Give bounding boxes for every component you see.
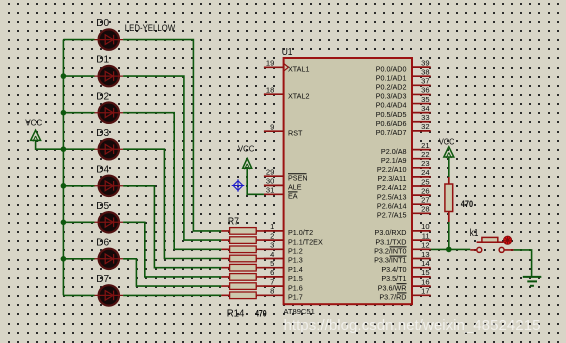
pin 8 stub (left) — [264, 294, 284, 296]
svg-text:29: 29 — [266, 168, 274, 177]
svg-text:P3.3/INT1: P3.3/INT1 — [374, 256, 406, 265]
svg-text:VCC: VCC — [238, 144, 255, 154]
svg-text:P2.3/A11: P2.3/A11 — [377, 174, 406, 183]
svg-text:D1: D1 — [96, 54, 109, 66]
svg-text:RST: RST — [288, 128, 303, 137]
svg-text:PSEN: PSEN — [288, 173, 308, 182]
svg-text:12: 12 — [421, 241, 429, 250]
wire button to ground — [514, 250, 532, 277]
wire D2 cathode to R7 element 3 — [123, 113, 221, 250]
svg-text:P0.6/AD6: P0.6/AD6 — [376, 119, 407, 128]
LED D3 — [95, 139, 124, 159]
junction node at P3.2 / resistor / button — [446, 247, 452, 253]
overline for P3.7/RD — [397, 292, 407, 294]
overline for P3.3/INT1 — [390, 255, 407, 257]
svg-text:P1.3: P1.3 — [288, 256, 303, 265]
svg-text:P0.5/AD5: P0.5/AD5 — [376, 110, 407, 119]
pin 35 stub (right) — [412, 103, 431, 105]
pin 26 stub (right) — [412, 194, 431, 196]
svg-text:VCC: VCC — [439, 136, 455, 146]
overline for P3.2/INT0 — [390, 246, 407, 248]
svg-text:D5: D5 — [96, 200, 109, 212]
svg-text:VCC: VCC — [25, 118, 42, 128]
wire resistor bottom to junction — [448, 222, 450, 249]
svg-text:https://blog.csdn.net/weixin_4: https://blog.csdn.net/weixin_48524215 — [284, 317, 541, 334]
svg-text:D3: D3 — [96, 127, 109, 139]
svg-text:18: 18 — [266, 86, 274, 95]
pin 24 stub (right) — [412, 176, 431, 178]
junction node on bus at D5 — [61, 220, 67, 226]
svg-text:3: 3 — [270, 241, 274, 250]
pin 2 stub (left) — [264, 239, 284, 241]
pin 32 stub (right) — [412, 130, 431, 132]
svg-text:XTAL1: XTAL1 — [288, 65, 309, 74]
svg-text:39: 39 — [421, 58, 429, 67]
pin 11 stub (right) — [412, 239, 431, 241]
wire LED anode bus (vertical) — [62, 40, 64, 296]
svg-text:P3.6/WR: P3.6/WR — [378, 283, 407, 292]
wire D0 cathode to R7 element 1 — [123, 40, 221, 231]
svg-text:27: 27 — [421, 196, 429, 205]
svg-text:P2.2/A10: P2.2/A10 — [377, 165, 407, 174]
button k1 red actuator — [503, 236, 511, 244]
svg-text:P0.7/AD7: P0.7/AD7 — [376, 128, 407, 137]
svg-text:P1.0/T2: P1.0/T2 — [288, 228, 313, 237]
power symbol VCC (mid, to EA pin) — [243, 159, 252, 170]
svg-text:XTAL2: XTAL2 — [288, 91, 309, 100]
pin 7 stub (left) — [264, 285, 284, 287]
svg-text:U1: U1 — [282, 46, 293, 58]
pin 25 stub (right) — [412, 185, 431, 187]
svg-text:36: 36 — [421, 86, 429, 95]
pin 16 stub (right) — [412, 285, 431, 287]
LED D7 — [95, 285, 124, 305]
svg-text:5: 5 — [270, 259, 274, 268]
wire bus to D6 anode — [63, 258, 94, 260]
LED D2 — [95, 103, 124, 123]
svg-text:470: 470 — [255, 308, 267, 318]
svg-text:1: 1 — [270, 222, 274, 231]
svg-text:6: 6 — [270, 268, 274, 277]
pin 9 stub (left) — [264, 130, 284, 132]
svg-text:11: 11 — [422, 231, 430, 240]
LED D1 — [95, 66, 124, 86]
svg-text:470: 470 — [461, 199, 473, 209]
svg-text:P1.5: P1.5 — [288, 274, 303, 283]
svg-text:25: 25 — [421, 177, 429, 186]
svg-text:D0: D0 — [96, 17, 109, 29]
wire bus to D1 anode — [63, 75, 94, 77]
wire bus to D2 anode — [63, 112, 94, 114]
pin 18 stub (left) — [264, 93, 284, 95]
svg-text:P1.6: P1.6 — [288, 283, 303, 292]
pin 30 stub (left) — [264, 184, 284, 186]
ground symbol — [523, 277, 542, 286]
power symbol VCC (left) — [31, 130, 41, 141]
wire D3 cathode to R7 element 4 — [123, 149, 221, 258]
resistor 470 (pull-up) — [445, 177, 453, 222]
svg-text:9: 9 — [270, 123, 274, 132]
pin 17 stub (right) — [412, 294, 431, 296]
svg-text:22: 22 — [421, 150, 429, 159]
pin 14 stub (right) — [412, 267, 431, 269]
svg-text:30: 30 — [266, 177, 274, 186]
pin 5 stub (left) — [264, 267, 284, 269]
svg-text:P2.4/A12: P2.4/A12 — [377, 183, 407, 192]
svg-text:P2.5/A13: P2.5/A13 — [377, 192, 407, 201]
resistor R7 element 6 — [221, 274, 264, 281]
pin 28 stub (right) — [412, 212, 431, 214]
svg-text:ALE: ALE — [288, 183, 302, 192]
svg-text:P3.2/INT0: P3.2/INT0 — [374, 247, 406, 256]
resistor R7 element 4 — [221, 255, 264, 262]
svg-text:P0.1/AD1: P0.1/AD1 — [376, 73, 407, 82]
svg-text:28: 28 — [421, 205, 429, 214]
svg-text:P3.0/RXD: P3.0/RXD — [375, 228, 407, 237]
svg-text:P2.6/A14: P2.6/A14 — [377, 201, 407, 210]
pin 34 stub (right) — [412, 112, 431, 114]
svg-text:32: 32 — [421, 122, 429, 131]
pin 37 stub (right) — [412, 84, 431, 86]
pin 23 stub (right) — [412, 167, 431, 169]
svg-text:24: 24 — [421, 168, 429, 177]
wire D1 cathode to R7 element 2 — [123, 76, 221, 240]
junction node on bus at D6 — [61, 256, 67, 262]
resistor R7 element 8 — [221, 292, 264, 299]
svg-text:P0.0/AD0: P0.0/AD0 — [376, 64, 407, 73]
svg-text:38: 38 — [421, 68, 429, 77]
pin 15 stub (right) — [412, 276, 431, 278]
wire bus to D7 anode — [63, 294, 94, 296]
resistor R7 element 3 — [221, 246, 264, 253]
svg-text:k1: k1 — [470, 227, 479, 239]
pin 13 stub (right) — [412, 258, 431, 260]
wire D6 cathode to R7 element 7 — [123, 259, 221, 286]
push button k1 — [470, 237, 513, 252]
wire bus to D5 anode — [63, 221, 94, 223]
LED D6 — [95, 249, 124, 269]
svg-text:D7: D7 — [96, 273, 109, 285]
overline for P3.6/WR — [397, 283, 407, 285]
pin 39 stub (right) — [412, 66, 431, 68]
origin marker (blue) — [232, 179, 245, 192]
pin 19 stub (left) — [264, 66, 284, 68]
wire bus to D0 anode — [63, 39, 94, 41]
LED D0 — [95, 29, 124, 49]
junction node on bus at D3 — [61, 146, 67, 152]
svg-text:P2.0/A8: P2.0/A8 — [381, 147, 407, 156]
pin 12 stub (right) — [412, 248, 431, 250]
svg-text:EA: EA — [288, 192, 298, 201]
svg-text:37: 37 — [421, 77, 429, 86]
LED D4 — [95, 176, 124, 196]
pin 31 stub (left) — [264, 193, 284, 195]
svg-text:P0.3/AD3: P0.3/AD3 — [376, 92, 407, 101]
svg-text:7: 7 — [270, 277, 274, 286]
LED D5 — [95, 212, 124, 232]
pin 21 stub (right) — [412, 149, 431, 151]
wire bus to D4 anode — [63, 185, 94, 187]
resistor R7 element 2 — [221, 237, 264, 244]
pin 4 stub (left) — [264, 258, 284, 260]
svg-text:P3.5/T1: P3.5/T1 — [381, 274, 406, 283]
svg-text:P3.1/TXD: P3.1/TXD — [375, 237, 406, 246]
svg-text:35: 35 — [421, 95, 429, 104]
wire D5 cathode to R7 element 6 — [123, 222, 221, 277]
power symbol VCC (right) — [444, 147, 454, 158]
svg-text:4: 4 — [270, 250, 274, 259]
wire D7 cathode to R7 element 8 — [123, 294, 221, 296]
svg-text:34: 34 — [421, 104, 429, 113]
svg-text:21: 21 — [421, 141, 429, 150]
pin 3 stub (left) — [264, 248, 284, 250]
wire VCC-mid to pin 31 EA — [247, 168, 264, 194]
svg-text:26: 26 — [421, 186, 429, 195]
svg-text:31: 31 — [266, 186, 274, 195]
pin 1 stub (left) — [264, 230, 284, 232]
svg-text:D6: D6 — [96, 236, 109, 248]
svg-text:P2.1/A9: P2.1/A9 — [381, 156, 407, 165]
IC U1 AT89C51 body — [284, 58, 412, 304]
svg-text:P3.7/RD: P3.7/RD — [379, 293, 406, 302]
svg-text:R14: R14 — [227, 308, 245, 320]
pin 27 stub (right) — [412, 203, 431, 205]
svg-text:17: 17 — [421, 287, 429, 296]
svg-text:R7: R7 — [228, 216, 239, 228]
svg-text:14: 14 — [421, 259, 429, 268]
wire VCC-right to resistor top — [448, 157, 450, 177]
svg-text:P1.7: P1.7 — [288, 293, 303, 302]
svg-text:D2: D2 — [96, 90, 109, 102]
svg-text:13: 13 — [421, 250, 429, 259]
svg-text:AT89C51: AT89C51 — [283, 307, 314, 316]
wire VCC-left to LED anode bus — [36, 140, 64, 149]
pin 36 stub (right) — [412, 93, 431, 95]
overline for PSEN — [288, 173, 307, 175]
svg-text:15: 15 — [421, 268, 429, 277]
pin 29 stub (left) — [264, 175, 284, 177]
wire pin 12 P3.2 to junction to button k1 — [431, 248, 471, 250]
pin 38 stub (right) — [412, 75, 431, 77]
wire D4 cathode to R7 element 5 — [123, 186, 221, 268]
svg-text:D4: D4 — [96, 163, 109, 175]
svg-text:P2.7/A15: P2.7/A15 — [377, 211, 407, 220]
pin 6 stub (left) — [264, 276, 284, 278]
pin 33 stub (right) — [412, 121, 431, 123]
svg-text:2: 2 — [270, 231, 274, 240]
svg-text:8: 8 — [270, 287, 274, 296]
svg-text:P1.4: P1.4 — [288, 265, 303, 274]
resistor R7 element 5 — [221, 264, 264, 271]
svg-text:P1.1/T2EX: P1.1/T2EX — [288, 237, 323, 246]
svg-text:23: 23 — [421, 159, 429, 168]
svg-text:P0.2/AD2: P0.2/AD2 — [376, 83, 407, 92]
svg-text:P3.4/T0: P3.4/T0 — [381, 265, 406, 274]
overline for EA — [288, 191, 298, 193]
wire bus to D3 anode — [63, 148, 94, 150]
junction node on bus at D4 — [61, 183, 67, 189]
junction node on bus at D1 — [61, 73, 67, 79]
pin 22 stub (right) — [412, 158, 431, 160]
resistor R7 element 1 — [221, 228, 264, 235]
pin 10 stub (right) — [412, 230, 431, 232]
svg-text:P1.2: P1.2 — [288, 247, 303, 256]
junction node on bus at D2 — [61, 110, 67, 116]
svg-text:P0.4/AD4: P0.4/AD4 — [376, 101, 407, 110]
svg-text:16: 16 — [421, 277, 429, 286]
svg-text:LED-YELLOW: LED-YELLOW — [125, 23, 176, 33]
clock input arrow at XTAL1 — [284, 64, 288, 71]
resistor R7 element 7 — [221, 283, 264, 290]
svg-text:19: 19 — [266, 59, 274, 68]
svg-text:33: 33 — [421, 113, 429, 122]
svg-text:10: 10 — [421, 222, 429, 231]
